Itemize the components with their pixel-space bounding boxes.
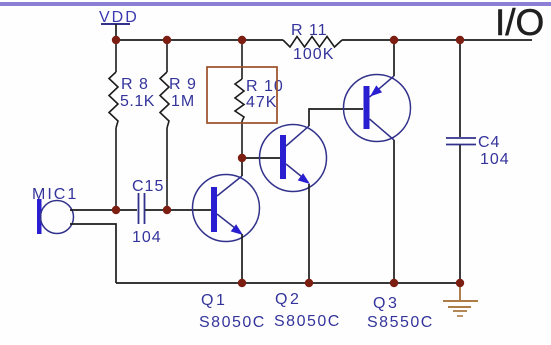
wire Q2 base <box>242 157 280 159</box>
transistor Q2 <box>260 125 341 331</box>
svg-text:104: 104 <box>132 229 162 246</box>
capacitor C15 <box>132 178 164 246</box>
highlight box around R10 <box>207 67 277 123</box>
svg-text:I/O: I/O <box>495 2 544 43</box>
svg-text:100K: 100K <box>293 46 334 63</box>
junction bottom rail at Q1 emitter <box>238 279 246 287</box>
transistor Q3 <box>344 75 434 332</box>
svg-text:1M: 1M <box>171 93 195 110</box>
wire Q3 collector <box>393 140 395 283</box>
svg-text:Q2: Q2 <box>275 291 301 308</box>
wire Q3 emitter <box>393 40 395 76</box>
junction bottom rail at ground <box>456 279 464 287</box>
junction bottom rail at Q3 collector <box>390 279 398 287</box>
svg-text:R 9: R 9 <box>169 76 197 93</box>
resistor R8 <box>109 40 155 210</box>
junction top rail at C4 <box>456 36 464 44</box>
svg-text:47K: 47K <box>246 94 277 111</box>
junction top rail at Q3 emitter <box>390 36 398 44</box>
wire VDD top rail <box>116 39 532 41</box>
wire Q1 collector <box>241 158 243 176</box>
junction node R10/Q1 collector/Q2 base <box>238 154 246 162</box>
wire C4 bottom <box>459 145 461 283</box>
svg-text:S8050C: S8050C <box>199 314 266 331</box>
svg-text:R 11: R 11 <box>291 22 328 39</box>
microphone MIC1 <box>32 186 78 234</box>
svg-text:S8550C: S8550C <box>367 314 434 331</box>
junction node mic/R8/C15 <box>112 206 120 214</box>
power label VDD <box>99 9 139 40</box>
svg-text:C4: C4 <box>478 134 500 151</box>
junction bottom rail at Q2 emitter <box>305 279 313 287</box>
wire mic top lead <box>70 209 137 211</box>
wire Q2 emitter <box>308 184 310 283</box>
wire bottom ground rail <box>116 282 460 284</box>
svg-text:Q3: Q3 <box>373 295 399 312</box>
ground symbol <box>443 283 478 316</box>
svg-text:104: 104 <box>480 151 510 168</box>
wire Q2 collector to Q3 base <box>309 109 363 126</box>
resistor R10 <box>235 40 284 158</box>
resistor R11 <box>283 22 342 63</box>
wire C15 to Q1 base <box>145 209 211 211</box>
wire C4 top <box>459 40 461 137</box>
top lavender border bar <box>0 2 551 6</box>
junction top rail at R8/VDD <box>112 36 120 44</box>
transistor Q1 <box>193 175 266 332</box>
wire Q1 emitter <box>241 234 243 283</box>
capacitor C4 <box>446 134 510 168</box>
svg-text:Q1: Q1 <box>201 292 227 309</box>
junction top rail at R10 <box>238 36 246 44</box>
junction node C15/R9/Q1 base <box>163 206 171 214</box>
svg-text:C15: C15 <box>132 178 164 195</box>
junction top rail at R9 <box>163 36 171 44</box>
svg-text:5.1K: 5.1K <box>120 93 155 110</box>
resistor R9 <box>160 40 197 210</box>
wire mic bottom lead <box>70 224 116 283</box>
svg-text:S8050C: S8050C <box>274 313 341 330</box>
svg-text:R 8: R 8 <box>121 76 149 93</box>
svg-text:R 10: R 10 <box>246 78 284 95</box>
